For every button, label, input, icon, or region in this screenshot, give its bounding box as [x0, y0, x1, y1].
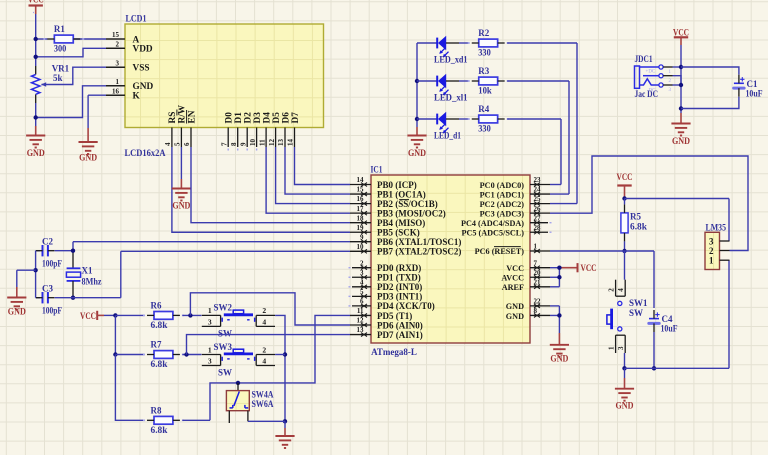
svg-text:R4: R4: [478, 104, 489, 114]
svg-text:6: 6: [360, 298, 364, 306]
svg-text:6.8k: 6.8k: [151, 425, 168, 435]
svg-text:26: 26: [534, 205, 542, 213]
svg-text:LM35: LM35: [706, 223, 727, 233]
svg-text:1: 1: [534, 243, 538, 251]
svg-text:4: 4: [262, 317, 266, 326]
svg-text:C3: C3: [42, 284, 53, 294]
svg-text:4: 4: [164, 142, 172, 146]
svg-text:LCD1: LCD1: [126, 14, 147, 24]
svg-text:2: 2: [262, 345, 266, 354]
svg-text:VCC: VCC: [28, 0, 44, 5]
svg-text:SW: SW: [218, 368, 232, 378]
svg-text:SW1: SW1: [629, 298, 648, 308]
svg-text:PC1 (ADC1): PC1 (ADC1): [480, 190, 525, 199]
svg-text:PD1 (TXD): PD1 (TXD): [377, 273, 421, 283]
svg-text:16: 16: [112, 87, 120, 95]
svg-text:GND: GND: [616, 401, 634, 411]
svg-text:20: 20: [534, 269, 542, 277]
svg-text:7: 7: [534, 259, 538, 267]
svg-text:330: 330: [478, 48, 491, 58]
svg-text:R7: R7: [151, 340, 162, 350]
svg-text:GND: GND: [550, 354, 568, 364]
svg-text:GND: GND: [79, 153, 97, 163]
svg-text:SW: SW: [218, 328, 232, 338]
svg-text:R2: R2: [478, 28, 489, 38]
svg-text:PB6 (XTAL1/TOSC1): PB6 (XTAL1/TOSC1): [377, 237, 461, 247]
svg-text:R6: R6: [151, 301, 162, 311]
svg-text:D4: D4: [262, 112, 272, 124]
svg-text:5: 5: [174, 142, 182, 146]
svg-text:2: 2: [262, 306, 266, 315]
svg-text:2: 2: [709, 246, 714, 256]
svg-text:EN: EN: [187, 110, 197, 123]
svg-text:X1: X1: [82, 265, 93, 275]
svg-text:PD6 (AIN0): PD6 (AIN0): [377, 320, 423, 330]
svg-text:SW: SW: [629, 308, 643, 318]
svg-text:VR1: VR1: [52, 63, 70, 73]
svg-text:3: 3: [208, 357, 212, 366]
svg-text:10uF: 10uF: [746, 89, 763, 99]
svg-text:SW6A: SW6A: [252, 399, 274, 409]
svg-text:C2: C2: [42, 237, 53, 247]
svg-text:D1: D1: [234, 112, 244, 124]
svg-text:R5: R5: [630, 211, 641, 221]
svg-text:R8: R8: [151, 405, 162, 415]
svg-text:GND: GND: [506, 302, 524, 311]
svg-text:PC2 (ADC2): PC2 (ADC2): [480, 200, 525, 209]
svg-text:VCC: VCC: [506, 264, 524, 273]
svg-text:8: 8: [534, 307, 538, 315]
svg-text:PD4 (XCK/T0): PD4 (XCK/T0): [377, 301, 435, 311]
svg-text:VDD: VDD: [133, 45, 153, 55]
svg-text:GND: GND: [672, 136, 690, 146]
svg-text:1: 1: [608, 346, 616, 350]
svg-text:15: 15: [112, 31, 120, 39]
svg-text:AVCC: AVCC: [501, 274, 524, 283]
svg-text:PC6 (RESET): PC6 (RESET): [475, 247, 525, 256]
svg-text:19: 19: [357, 224, 365, 232]
svg-text:25: 25: [534, 195, 542, 203]
svg-text:27: 27: [534, 214, 542, 222]
svg-text:JDC1: JDC1: [635, 54, 653, 64]
svg-text:PD2 (INT0): PD2 (INT0): [377, 282, 422, 292]
svg-text:D7: D7: [291, 112, 301, 124]
svg-text:11: 11: [258, 139, 266, 146]
svg-text:+DC: +DC: [646, 70, 656, 75]
svg-text:4: 4: [262, 357, 266, 366]
svg-text:D0: D0: [225, 112, 235, 124]
svg-text:SW3: SW3: [214, 342, 233, 352]
svg-text:6.8k: 6.8k: [630, 221, 647, 231]
svg-text:18: 18: [357, 214, 365, 222]
svg-text:330: 330: [478, 124, 491, 134]
svg-text:D3: D3: [253, 112, 263, 124]
svg-text:PD7 (AIN1): PD7 (AIN1): [377, 330, 423, 340]
svg-text:GND: GND: [408, 148, 426, 158]
svg-text:7: 7: [220, 142, 228, 146]
svg-text:14: 14: [357, 176, 365, 184]
svg-text:PC3 (ADC3): PC3 (ADC3): [480, 209, 525, 218]
svg-text:LED_d1: LED_d1: [434, 131, 461, 141]
svg-text:2: 2: [116, 41, 120, 49]
svg-text:12: 12: [357, 317, 365, 325]
svg-text:C4: C4: [662, 314, 673, 324]
svg-text:1: 1: [208, 345, 212, 354]
svg-text:PC4 (ADC4/SDA): PC4 (ADC4/SDA): [461, 219, 524, 228]
svg-text:100pF: 100pF: [42, 306, 62, 316]
svg-text:11: 11: [357, 307, 364, 315]
svg-text:6: 6: [183, 142, 191, 146]
svg-text:GND: GND: [506, 312, 524, 321]
svg-text:6.8k: 6.8k: [151, 320, 168, 330]
svg-text:5k: 5k: [53, 73, 63, 83]
svg-text:6.8k: 6.8k: [151, 359, 168, 369]
svg-text:23: 23: [534, 176, 542, 184]
svg-text:3: 3: [617, 346, 625, 350]
svg-text:28: 28: [534, 224, 542, 232]
svg-text:100pF: 100pF: [42, 259, 62, 269]
svg-text:22: 22: [534, 298, 542, 306]
svg-text:24: 24: [534, 186, 542, 194]
svg-text:PC0 (ADC0): PC0 (ADC0): [480, 181, 525, 190]
svg-text:14: 14: [287, 139, 295, 147]
svg-text:GND: GND: [27, 148, 45, 158]
svg-text:LED_xd1: LED_xd1: [434, 55, 468, 65]
svg-text:VSS: VSS: [133, 64, 150, 74]
svg-text:4: 4: [360, 278, 364, 286]
svg-text:2: 2: [608, 288, 616, 292]
svg-text:PB0 (ICP): PB0 (ICP): [377, 180, 417, 190]
svg-text:LED_xl1: LED_xl1: [434, 93, 468, 103]
svg-text:1: 1: [709, 256, 714, 266]
svg-text:ATmega8-L: ATmega8-L: [371, 347, 417, 357]
svg-text:PB3 (MOSI/OC2): PB3 (MOSI/OC2): [377, 208, 446, 218]
svg-text:C1: C1: [747, 79, 758, 89]
svg-text:10k: 10k: [478, 86, 492, 96]
svg-text:3: 3: [208, 317, 212, 326]
svg-text:VCC: VCC: [617, 172, 633, 182]
svg-text:2: 2: [360, 259, 364, 267]
svg-text:15: 15: [357, 186, 365, 194]
svg-text:10: 10: [249, 139, 257, 146]
svg-text:GND: GND: [8, 307, 26, 317]
svg-text:PB4 (MISO): PB4 (MISO): [377, 218, 425, 228]
svg-text:5: 5: [360, 288, 364, 296]
svg-text:8: 8: [230, 142, 238, 146]
svg-text:3: 3: [360, 269, 364, 277]
svg-text:8Mhz: 8Mhz: [82, 276, 102, 286]
svg-text:D6: D6: [281, 112, 291, 124]
svg-text:DC: DC: [649, 89, 657, 94]
svg-text:12: 12: [268, 139, 276, 147]
svg-text:13: 13: [277, 139, 285, 147]
svg-text:9: 9: [360, 233, 364, 241]
svg-text:VCC: VCC: [80, 311, 96, 321]
svg-text:PB1 (OC1A): PB1 (OC1A): [377, 189, 426, 199]
svg-text:LCD16x2A: LCD16x2A: [125, 148, 166, 158]
svg-text:4: 4: [617, 288, 625, 292]
svg-text:R1: R1: [54, 24, 65, 34]
svg-text:R3: R3: [478, 66, 489, 76]
svg-text:1: 1: [116, 78, 120, 86]
svg-text:PB7 (XTAL2/TOSC2): PB7 (XTAL2/TOSC2): [377, 247, 461, 257]
svg-text:PC5 (ADC5/SCL): PC5 (ADC5/SCL): [461, 229, 524, 238]
svg-text:3: 3: [116, 59, 120, 67]
svg-text:GND: GND: [172, 201, 190, 211]
svg-text:SW2: SW2: [214, 303, 233, 313]
svg-text:PD0 (RXD): PD0 (RXD): [377, 263, 421, 273]
svg-text:10uF: 10uF: [661, 324, 678, 334]
svg-text:13: 13: [357, 326, 365, 334]
svg-text:AREF: AREF: [502, 283, 524, 292]
svg-text:PD3 (INT1): PD3 (INT1): [377, 292, 422, 302]
svg-text:PD5 (T1): PD5 (T1): [377, 311, 412, 321]
svg-text:300: 300: [54, 44, 67, 54]
svg-text:3: 3: [709, 236, 714, 246]
svg-text:17: 17: [357, 205, 365, 213]
svg-text:21: 21: [534, 278, 542, 286]
svg-text:9: 9: [239, 142, 247, 146]
svg-text:VCC: VCC: [673, 27, 689, 37]
svg-text:PB2 (SS/OC1B): PB2 (SS/OC1B): [377, 199, 438, 209]
svg-text:1: 1: [208, 306, 212, 315]
svg-text:K: K: [133, 92, 141, 102]
svg-text:VCC: VCC: [581, 263, 597, 273]
svg-text:16: 16: [357, 195, 365, 203]
svg-text:10: 10: [357, 243, 365, 251]
svg-text:IC1: IC1: [371, 165, 383, 175]
